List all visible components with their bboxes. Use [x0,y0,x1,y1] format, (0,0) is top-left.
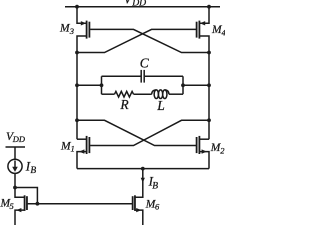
svg-text:6: 6 [155,202,160,212]
svg-text:DD: DD [12,134,26,144]
svg-text:3: 3 [69,26,74,36]
svg-text:L: L [156,98,165,113]
svg-text:5: 5 [10,201,14,211]
svg-text:1: 1 [71,144,75,154]
svg-text:B: B [30,166,36,176]
svg-text:B: B [152,181,158,191]
svg-text:4: 4 [222,28,226,38]
svg-text:2: 2 [220,145,225,155]
svg-text:DD: DD [131,0,146,9]
svg-text:R: R [119,97,129,112]
svg-text:C: C [140,56,150,71]
